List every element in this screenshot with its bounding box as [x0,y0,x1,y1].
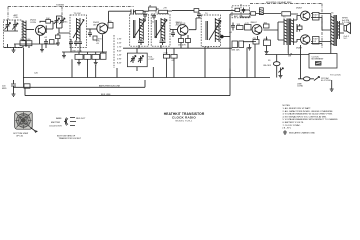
resistor R1a padder [56,35,61,39]
svg-text:CLOCK RADIO: CLOCK RADIO [172,115,196,119]
speaker terminal lug [31,128,38,133]
resistor R20 [171,54,177,58]
wire Q3 emitter down [181,35,188,39]
svg-text:+9V: +9V [163,8,167,10]
wire detector output [221,14,254,48]
capacitor C17 electrolytic [11,80,16,90]
transistor Q1 converter [36,25,46,35]
svg-text:BASE: BASE [56,117,62,120]
transistor Q2 1st IF [97,23,108,34]
wire T1 to Q2 base [87,28,98,30]
transistor Q3 2nd IF amp [177,25,188,36]
ground legend symbol [283,130,287,134]
capacitor C8 [197,12,201,18]
SECTION: ifstages [62,4,302,78]
ground AC [330,80,334,91]
wire padder [57,33,59,43]
svg-text:RED DOT: RED DOT [76,118,86,120]
ground R15 [77,59,81,65]
wire Q5 collector to T6 [311,14,331,16]
thermistor RT1 (hatched) [259,8,263,15]
heat sink enclosure (dash-dot) [250,4,322,49]
wire Q4 emitter bias [243,36,267,42]
rheostat R29 arrow [278,68,283,74]
SECTION: tuner [4,4,138,87]
resistor R9 under Q3 [179,39,184,43]
wire Q6 collector to T6 [311,42,331,46]
resistor R10 under Q3 [186,39,191,43]
wire T6 tap down [330,46,332,54]
resistor R6 on B+ [149,7,157,11]
resistor R1 [46,20,51,24]
resistor R11 [237,26,244,30]
resistor R4 [50,40,55,45]
svg-text:AMPLIFIER BUS LINE: AMPLIFIER BUS LINE [99,85,121,88]
resistor R27 [313,37,320,45]
resistor R5 [108,23,113,29]
resistor R12 [245,25,252,31]
resistor R6a on rail [135,10,143,14]
capacitor C7 bypass [152,14,156,20]
resistor R7 on B+ [159,10,168,13]
inductor L1 winding [23,21,26,48]
inductor T1 winding [77,18,81,40]
wire gang drop to antenna section [7,7,9,21]
switch S2 arrow [314,77,320,81]
wire VR1 stem [136,48,138,71]
wire drops to amp bus [72,59,88,77]
capacitor C11 [171,30,175,38]
capacitor C4 [74,40,78,46]
svg-text:OSC: OSC [63,22,68,24]
ground under Q2 row [62,52,66,58]
resistor R2 [20,41,26,46]
ground C17 [12,90,16,96]
SECTION: power [2,44,341,96]
wire Q4 base in [250,29,253,31]
svg-text:150 47K: 150 47K [178,45,186,47]
inductor T4 primary [215,18,219,42]
wire amplifier bus line [13,80,145,87]
wire Q1 bias row [14,40,58,48]
ground R17 [94,59,98,65]
inductor T3 secondary [155,20,156,38]
transistor Q4 audio driver [252,25,262,35]
svg-text:10K: 10K [46,18,50,20]
capacitor C12 [231,23,235,31]
ground antenna [12,48,16,53]
wire R19 R20 drops [167,48,175,77]
svg-text:MODEL TCR-1: MODEL TCR-1 [176,120,193,122]
svg-text:MOUNTED ON HEAT SINK: MOUNTED ON HEAT SINK [266,1,292,4]
resistor R3 [26,41,32,46]
wire under-IF ground bus [123,43,232,49]
clock unit B1 (box) [309,54,337,69]
capacitor C2A osc section of gang [55,18,59,26]
wire gang drop to oscillator section [61,7,63,21]
resistor R18 under Q2 [100,53,106,59]
resistor R25 [282,12,291,16]
resistor R30 in clock [316,62,322,66]
capacitor C9 in T2 [138,39,144,46]
capacitor C1B trimmer [12,20,18,31]
svg-text:BUS LINE: BUS LINE [101,94,111,96]
resistor R8b [235,8,240,11]
svg-text:10K: 10K [237,24,241,26]
svg-text:TO CLOCK: TO CLOCK [330,75,341,77]
resistor R26 [313,13,320,21]
wire L1 tap to Q1 base [26,29,34,31]
resistor R24 [251,12,256,16]
resistor R28 [24,84,30,88]
speaker bottom view figure [15,112,33,130]
svg-text:2N407: 2N407 [251,22,258,24]
transformer T2 1st IF (dashed box) [130,14,149,46]
svg-text:2.2K: 2.2K [163,53,168,55]
svg-text:ON-OFF: ON-OFF [263,65,272,67]
svg-text:T1 OSC: T1 OSC [74,13,82,15]
wire P1 leads [298,78,314,80]
capacitor C10 in T3 [160,39,166,46]
svg-text:3.3K: 3.3K [26,39,31,41]
ground padder [56,43,60,45]
resistor R23 under Q4 [264,40,271,46]
wire T5 bottom to line [287,45,289,54]
inductor T3 primary [161,18,165,40]
resistor R14 [239,41,244,48]
svg-text:68K 10K: 68K 10K [232,50,241,52]
SECTION: bottom [13,105,338,140]
switch S1 oval [273,62,280,66]
transformer T5 driver [284,19,287,46]
svg-text:INDICATES CHASSIS GND: INDICATES CHASSIS GND [289,131,315,134]
wire Q2 emitter row [62,47,107,55]
wire center tap [311,18,331,44]
svg-text:4.7K: 4.7K [245,23,250,25]
wire drops to common line [96,44,255,78]
svg-text:2N307: 2N307 [296,48,303,50]
resistor R15 under Q2 [75,54,83,59]
wire osc cap to coil [57,25,71,33]
transformer T4 3rd IF (dashed box) [201,15,220,47]
svg-text:2. ALL CAPACITORS IN MFD. UNLE: 2. ALL CAPACITORS IN MFD. UNLESS OTHERWI… [283,110,334,113]
svg-text:6. BATTERY 9 VOLTS.: 6. BATTERY 9 VOLTS. [283,121,305,124]
wire osc cap to gang [57,16,63,20]
ground Q4 bias1 [248,44,252,50]
wire antenna box bottom [4,44,23,48]
wire B+ rail top [109,9,251,11]
transistor Q6 output [301,35,310,44]
svg-text:2N412CONV: 2N412CONV [30,20,37,24]
filter block (dashed) [232,6,250,18]
capacitor C2B osc trimmer [60,18,64,26]
wire T3 to Q3 base [170,29,177,31]
wire S1 drop [265,55,309,78]
wire Q1 emitter down [39,35,41,40]
svg-text:NOTES:: NOTES: [283,105,291,107]
resistor R21 [264,24,270,28]
capacitor C8b [242,8,245,14]
transformer T6 output [331,15,334,46]
wire bus line 2 [25,69,230,96]
wire T5 secondary to Q5 base [294,16,300,21]
inductor T2 secondary [134,20,135,38]
wire common line [23,77,270,79]
svg-text:EMITTER: EMITTER [51,122,61,124]
resistor R19 [163,54,169,58]
resistor R5b below Q2 [93,36,97,40]
SECTION: audio [240,1,351,54]
capacitor C15 variable in VR1 [131,56,137,64]
capacitor C3 [44,39,48,46]
capacitor C5 [88,29,92,37]
resistor R13 [232,41,238,48]
svg-text:7. CLOCK 117VAC.: 7. CLOCK 117VAC. [283,124,301,127]
resistor R17 under Q2 [92,54,100,59]
resistor R8 [194,9,199,13]
resistor R22 under Q4 [253,40,259,45]
wire Q1 collector to R1 [40,21,53,33]
wire T5 secondary to Q6 base [294,40,300,43]
inductor T4 secondary [206,21,207,40]
ground Q4 bias2 [265,46,269,54]
capacitor C6 bypass [143,12,147,20]
transformer T1 oscillator (dashed box) [70,15,87,48]
capacitor C6a on rail [131,10,134,15]
ground S1 [279,73,283,78]
ground Q1 emitter [40,44,44,52]
coupling network Q5-Q6 [298,26,303,30]
wire tuning-gang link (dash-dot) [8,6,134,8]
wire dash drop at 241 [240,4,242,18]
wire Q2 collector up to B+ [109,11,138,23]
antenna rod coil L1 (dashed shield box) [4,20,23,48]
wire Q2 emitter down [102,35,104,53]
transistor socket figure [64,118,76,126]
wire Q4 collector to T5 [264,22,285,40]
capacitor C1A tuning [4,20,13,31]
inductor T2 primary [140,18,144,40]
volume control VR1 (boxed) [127,53,147,67]
transformer T3 2nd IF (dashed box) [151,14,170,46]
diode D1 detector junction [220,35,224,39]
wire top feed to Q5 [240,14,298,18]
AVC dashed line vertical [113,35,115,68]
svg-text:( B - 9V ): ( B - 9V ) [283,128,292,130]
speaker LS1 [344,23,351,34]
capacitor C13 [69,39,73,47]
svg-text:TUNING: TUNING [56,4,64,6]
resistor R16 under Q2 [84,54,91,59]
wire clock to output stage [300,45,302,79]
wire T6 to speaker [340,24,345,33]
svg-text:3. VOLTAGES MEASURED W/ 20,000: 3. VOLTAGES MEASURED W/ 20,000 OHM/V VTV… [283,113,333,116]
capacitor C14 [78,39,82,47]
svg-text:4. NO SIGNAL INPUT, VOL CONTRO: 4. NO SIGNAL INPUT, VOL CONTROL AT MIN. [283,115,327,118]
svg-text:2N307: 2N307 [296,8,303,10]
svg-text:5. VOLTAGES MEASURED WITH RESP: 5. VOLTAGES MEASURED WITH RESPECT TO CHA… [283,118,339,121]
wire long drop to bus [23,48,25,87]
svg-text:COLLECTOR: COLLECTOR [49,126,62,128]
svg-text:1. ALL RESISTORS 1/2 WATT.: 1. ALL RESISTORS 1/2 WATT. [283,107,312,110]
wire Q3 collector to T4 [189,18,201,30]
connector P1 oval [303,77,310,81]
transistor Q5 output [301,11,310,20]
capacitor C16 variable in VR1 [138,56,144,64]
